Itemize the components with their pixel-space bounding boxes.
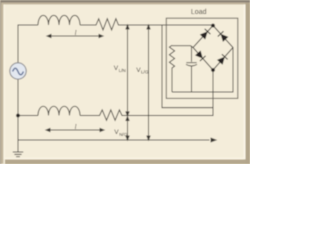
svg-text:l: l xyxy=(75,28,77,37)
svg-text:N/G: N/G xyxy=(119,132,128,137)
svg-text:L/G: L/G xyxy=(141,70,149,75)
svg-text:Load: Load xyxy=(191,9,207,16)
svg-text:l: l xyxy=(75,122,77,131)
svg-text:L/N: L/N xyxy=(119,68,126,73)
